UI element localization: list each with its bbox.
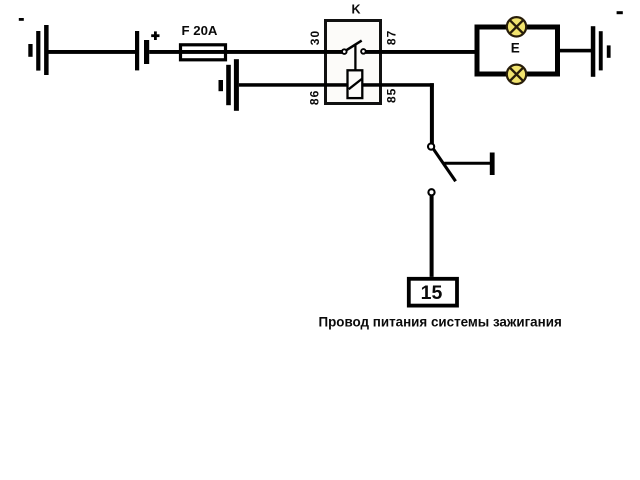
svg-text:E: E [511, 41, 520, 56]
lamp unit E frame [477, 27, 558, 74]
svg-text:15: 15 [421, 282, 443, 304]
svg-text:30: 30 [308, 30, 322, 45]
lamp E top bulb [507, 17, 526, 36]
switch S bottom contact circle [428, 189, 434, 195]
relay coil diagonal [349, 79, 363, 90]
fuse F element wire through [179, 50, 227, 54]
minus label of ground G3 [617, 11, 623, 14]
switch S actuator rod [444, 162, 491, 165]
minus label of ground G1 [19, 18, 24, 21]
switch S actuator end bar [490, 153, 495, 176]
wire ground G2 to relay pin 86 [239, 83, 347, 87]
wire lamp unit to ground G3 [560, 49, 592, 53]
plus label of battery [151, 31, 159, 40]
relay contact 30 circle [342, 49, 347, 54]
relay armature vertical link [354, 45, 356, 71]
relay coil [348, 70, 363, 98]
svg-text:86: 86 [307, 90, 321, 105]
wire pin85 corner down to switch [430, 83, 434, 144]
wire relay pin 85 out [362, 83, 434, 87]
wire fuse to relay pin 30 [227, 50, 343, 54]
wire relay pin 87 to lamp unit [366, 50, 476, 54]
terminal 15 box [409, 279, 457, 306]
switch S lever [433, 149, 455, 181]
ground G1 (left, battery negative) [28, 25, 48, 75]
ground G3 (right) [591, 26, 611, 77]
svg-text:K: K [351, 3, 360, 17]
wire switch down to terminal 15 [430, 195, 434, 277]
relay contact arm [346, 41, 362, 51]
switch S top contact circle [428, 144, 434, 150]
svg-text:F 20A: F 20A [182, 23, 218, 38]
battery GB plate positive (short thick) [144, 40, 149, 64]
wire battery to fuse F [149, 50, 179, 54]
lamp E bottom bulb [507, 65, 526, 84]
ground G2 (relay pin 86) [219, 59, 239, 111]
relay contact 87 circle [361, 49, 366, 54]
svg-text:Провод питания системы зажиган: Провод питания системы зажигания [319, 315, 562, 330]
svg-text:85: 85 [384, 88, 398, 103]
svg-text:87: 87 [384, 30, 398, 45]
battery GB plate negative (long thin) [135, 31, 139, 70]
wire ground G1 to battery [48, 50, 135, 54]
relay K box [326, 21, 381, 104]
fuse F body [181, 45, 226, 60]
